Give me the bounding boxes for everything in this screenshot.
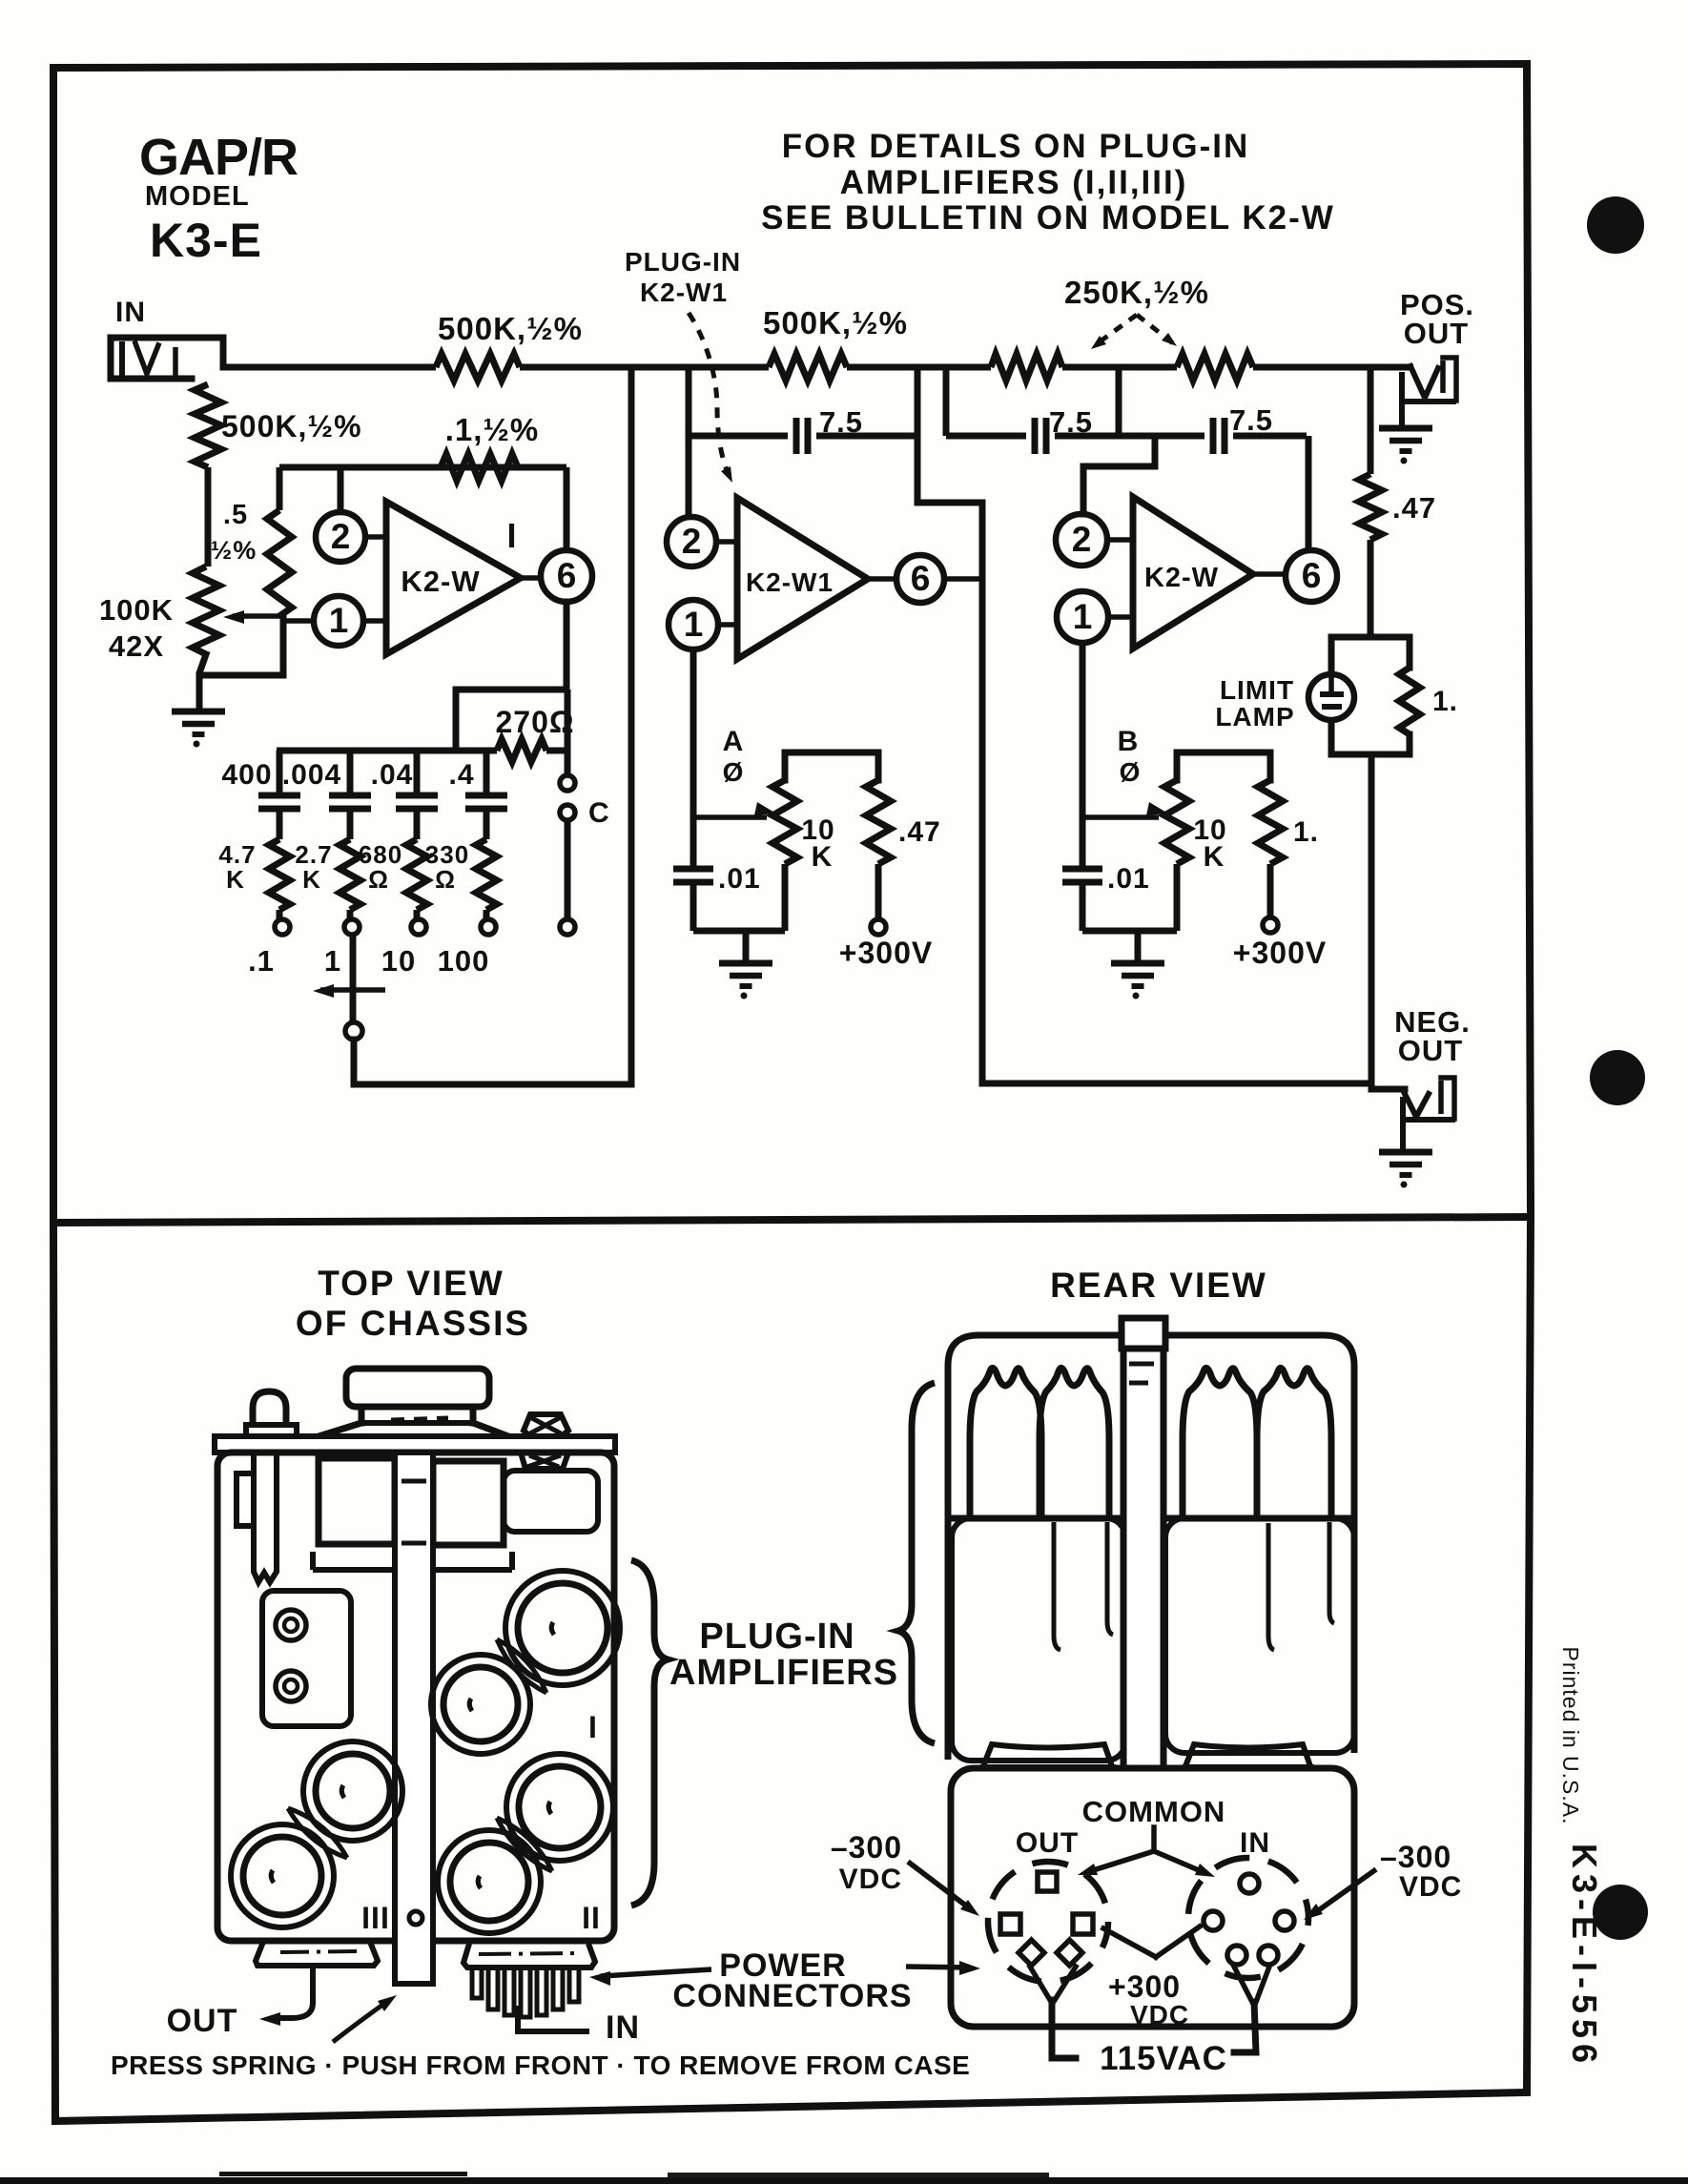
label .004	[282, 759, 341, 791]
switch contact C bottom	[560, 805, 575, 820]
wire pin1 to triangle (stage2)	[718, 622, 737, 628]
svg-text:100K: 100K	[99, 593, 174, 627]
label A phase	[723, 726, 745, 787]
wire feedback riser (stage2)	[915, 367, 921, 503]
svg-text:100: 100	[438, 944, 490, 978]
label 2.7 K	[295, 840, 332, 894]
svg-text:250K,½%: 250K,½%	[1064, 275, 1209, 310]
spring pointer arrow	[333, 1995, 397, 2042]
svg-text:OUT: OUT	[1398, 1034, 1463, 1067]
op-amp K2-W I (triangle)	[386, 502, 521, 654]
rear socket left	[980, 1744, 1116, 1767]
svg-text:K: K	[812, 841, 834, 873]
IN pin left	[1204, 1911, 1223, 1930]
wire 270 to switch	[565, 690, 571, 775]
svg-text:SEE BULLETIN ON MODEL K2-W: SEE BULLETIN ON MODEL K2-W	[761, 199, 1335, 237]
rear center bar cap	[1122, 1318, 1165, 1383]
resistor .47 (A)	[866, 780, 891, 864]
brace right (plug-in amplifiers)	[898, 1383, 935, 1743]
wire main bus segment 3	[847, 364, 991, 371]
svg-text:B: B	[1118, 726, 1140, 757]
svg-text:500K,½%: 500K,½%	[438, 311, 583, 346]
svg-text:.1: .1	[248, 944, 275, 978]
amplifier I tube cluster	[431, 1571, 620, 1754]
terminal C bottom	[560, 919, 575, 935]
capacitor 7.5 (stage2)	[796, 418, 808, 454]
OUT pin square left	[1000, 1914, 1020, 1934]
resistor 270 ohm	[497, 739, 568, 762]
svg-text:OUT: OUT	[167, 2003, 238, 2039]
svg-text:6: 6	[911, 559, 931, 598]
chassis knob neck	[361, 1407, 473, 1423]
label 7.5 (stage3 first)	[1049, 405, 1093, 439]
rear tube legs	[1054, 1522, 1334, 1650]
pin 1 circle (stage2)	[669, 600, 718, 649]
svg-text:500K,½%: 500K,½%	[221, 409, 362, 443]
resistor 250K second	[1177, 354, 1253, 381]
arrow power right	[906, 1961, 980, 1975]
label tap .1	[248, 944, 275, 978]
wire resistor to terminal (B)	[1267, 864, 1274, 917]
capacitor 400	[258, 795, 300, 839]
potentiometer 10K (B)	[1164, 780, 1189, 864]
label 115VAC	[1100, 2040, 1227, 2077]
IN power connector (dashed circle)	[1188, 1858, 1308, 1978]
resistor 4.7K (decade)	[269, 839, 290, 910]
wire resistor to tap 3	[414, 910, 421, 919]
wire main bus segment 5	[1253, 364, 1413, 371]
svg-text:1: 1	[329, 601, 349, 640]
switch contact C top	[560, 775, 575, 791]
ground (stage1 divider)	[172, 711, 225, 748]
wire cap stub 2	[347, 751, 354, 793]
wire pot top elbow (A)	[785, 752, 878, 780]
dashed arrow plug-in	[689, 313, 732, 483]
svg-text:.1,½%: .1,½%	[445, 412, 540, 447]
resistor 680&#937; (decade)	[406, 839, 427, 910]
svg-text:IN: IN	[1240, 1827, 1270, 1859]
svg-text:PLUG-IN: PLUG-IN	[699, 1617, 854, 1657]
rear module right	[1165, 1518, 1354, 1753]
svg-text:2: 2	[1072, 520, 1092, 559]
wire pin1 left (stage1)	[283, 618, 314, 624]
svg-text:AMPLIFIERS (I,II,III): AMPLIFIERS (I,II,III)	[840, 164, 1188, 201]
wire ground stem (B)	[1135, 931, 1142, 961]
connector IN jack	[111, 338, 223, 379]
svg-text:K3-E: K3-E	[150, 214, 262, 267]
svg-text:AMPLIFIERS: AMPLIFIERS	[669, 1653, 898, 1693]
label LIMIT LAMP	[1215, 675, 1294, 731]
label POWER CONNECTORS	[672, 1947, 912, 2014]
title GAP/R	[139, 129, 298, 186]
chassis right transformer	[433, 1461, 504, 1545]
margin text K3-E-I-556	[1565, 1844, 1604, 2069]
title REAR VIEW	[1050, 1266, 1267, 1305]
label tap 1	[324, 944, 341, 978]
rear shelf	[948, 1515, 1354, 1522]
ground (B)	[1111, 963, 1164, 999]
note line 2	[840, 164, 1188, 201]
label 100K 42X	[99, 593, 174, 663]
label 10 K (B)	[1193, 814, 1226, 873]
svg-text:LAMP: LAMP	[1215, 702, 1294, 731]
limit lamp box	[1331, 637, 1410, 754]
chassis left tab	[237, 1473, 251, 1526]
IN connector shoe	[463, 1944, 595, 1968]
wire feedback cap line (stage2)	[689, 433, 917, 440]
svg-text:I: I	[506, 516, 517, 555]
svg-text:2: 2	[331, 517, 351, 556]
svg-text:II: II	[582, 1901, 601, 1935]
capacitor .4	[465, 795, 507, 839]
svg-text:K: K	[302, 865, 321, 894]
svg-text:IN: IN	[606, 2009, 640, 2046]
resistor 500K half-percent (stage1 input, horizontal)	[436, 354, 520, 381]
svg-text:K2-W1: K2-W1	[640, 278, 728, 307]
dashed arrows to 250K resistors	[1091, 315, 1177, 349]
svg-text:K2-W: K2-W	[1144, 563, 1219, 593]
svg-text:.01: .01	[718, 863, 761, 895]
svg-text:1.: 1.	[1293, 816, 1319, 848]
svg-text:K: K	[1204, 841, 1225, 873]
capacitor .01 (B)	[1062, 817, 1102, 931]
OUT pin diamond left	[1019, 1940, 1044, 1966]
title MODEL	[145, 181, 250, 212]
wire cap stub 4	[484, 751, 490, 793]
label B phase	[1118, 726, 1142, 787]
connector ring 2	[276, 1671, 306, 1701]
chassis center bar	[395, 1453, 433, 1984]
svg-text:VDC: VDC	[1130, 2000, 1189, 2029]
svg-text:6: 6	[557, 556, 577, 595]
label +300V (B)	[1233, 936, 1327, 970]
wire pin6 down	[456, 602, 566, 751]
bottom page scan edge	[0, 2172, 1688, 2184]
label .01 (B)	[1107, 863, 1150, 895]
wire cap stub 3	[414, 751, 421, 793]
IN pin bottom right	[1259, 1946, 1278, 1965]
label I (top view)	[588, 1710, 598, 1744]
wire junction riser (stage3)	[1116, 367, 1122, 436]
label 500K,1/2% (stage2)	[763, 305, 908, 340]
arrow -300 right	[1304, 1869, 1376, 1920]
wiper arrow (pot B)	[1082, 802, 1168, 817]
wire feedback elbow (stage2)	[917, 503, 982, 1083]
wire wiper to lower junction	[199, 616, 283, 675]
svg-text:400: 400	[221, 759, 272, 791]
wire bottom (A)	[693, 928, 785, 935]
label tap 100	[438, 944, 490, 978]
svg-text:7.5: 7.5	[1049, 405, 1093, 439]
brace left (plug-in amplifiers)	[631, 1560, 668, 1906]
capacitor .04	[396, 795, 438, 839]
wire apex to pin6 (stage1)	[521, 575, 541, 581]
wire .47 to lamp box	[1368, 540, 1374, 637]
wire pin1 down (stage2)	[690, 649, 697, 817]
svg-text:500K,½%: 500K,½%	[763, 305, 908, 340]
svg-text:115VAC: 115VAC	[1100, 2040, 1227, 2077]
amplifier II tube cluster	[438, 1754, 613, 1933]
label NEG. OUT	[1394, 1005, 1471, 1067]
label .01 (A)	[718, 863, 761, 895]
label 500K,1/2% (stage1)	[438, 311, 583, 346]
resistor 500K half-percent (stage2 input)	[769, 354, 847, 381]
svg-text:MODEL: MODEL	[145, 181, 250, 212]
pot wiper arrow	[223, 610, 283, 624]
outer page border (top box)	[53, 64, 1531, 1223]
tap terminal 10	[411, 919, 426, 935]
potentiometer 10K (A)	[772, 780, 797, 864]
svg-text:K2-W1: K2-W1	[746, 567, 834, 597]
wire cap stub 1	[277, 751, 283, 793]
svg-text:.01: .01	[1107, 863, 1150, 895]
svg-text:+300: +300	[1108, 1969, 1181, 2004]
label 7.5 (stage2)	[819, 405, 863, 439]
note line 3	[761, 199, 1335, 237]
label +300V (A)	[839, 936, 933, 970]
wire main bus segment 1	[221, 364, 436, 371]
svg-text:½%: ½%	[211, 536, 257, 565]
+300 vee wires	[1103, 1926, 1200, 1957]
chassis bulb	[246, 1391, 297, 1436]
label AMPLIFIERS	[669, 1653, 898, 1693]
svg-text:.5: .5	[223, 500, 248, 530]
wire neg out bottom bus	[982, 1081, 1371, 1087]
rear tube 2	[1040, 1368, 1109, 1518]
IN connector pins	[472, 1968, 579, 2017]
rear center bar	[1123, 1349, 1163, 1768]
wire pin6 up (stage3)	[1306, 436, 1312, 550]
svg-text:K: K	[226, 865, 245, 894]
op-amp K2-W1 (triangle)	[737, 498, 868, 659]
label II (top view)	[582, 1901, 601, 1935]
punch hole bottom right	[1593, 1885, 1648, 1940]
rear tube 3	[1183, 1368, 1257, 1518]
pin 6 circle (stage1)	[541, 550, 592, 602]
label PLUG-IN K2-W1	[625, 247, 741, 307]
OUT pin diamond right	[1057, 1940, 1082, 1966]
note line 1	[782, 128, 1250, 165]
label 10 K (A)	[801, 814, 834, 873]
capacitor 7.5 (stage3 first)	[1035, 418, 1046, 454]
svg-text:C: C	[588, 797, 610, 829]
wire apex to pin6 (stage3)	[1253, 571, 1286, 577]
OUT connector shoe	[256, 1942, 378, 1966]
label III (top view)	[361, 1901, 390, 1935]
OUT power connector (dashed circle)	[988, 1862, 1108, 1982]
resistor .5 1/2% (vertical)	[267, 467, 292, 616]
svg-text:CONNECTORS: CONNECTORS	[672, 1978, 912, 2014]
rear tube 4	[1257, 1368, 1331, 1518]
svg-text:I: I	[588, 1710, 598, 1744]
punch hole top right	[1587, 196, 1644, 254]
label OUT (top view)	[167, 2003, 238, 2039]
capacitor 7.5 (stage3 second)	[1213, 418, 1225, 454]
label -300 VDC (left)	[831, 1830, 902, 1895]
selector arrow (decade switch)	[313, 984, 385, 998]
wire feedback top line	[279, 464, 566, 471]
amplifier III tube cluster	[231, 1741, 402, 1927]
svg-text:.04: .04	[371, 759, 414, 791]
svg-text:K2-W: K2-W	[401, 565, 480, 598]
wire input chain	[205, 467, 212, 567]
svg-text:OF CHASSIS: OF CHASSIS	[296, 1304, 530, 1343]
terminal +300V (A)	[871, 919, 886, 935]
title K3-E	[150, 214, 262, 267]
connector block (left)	[262, 1591, 351, 1726]
wire .47 drop	[1368, 367, 1374, 474]
resistor 2.7K (decade)	[340, 839, 360, 910]
wire selector to bottom	[354, 1040, 631, 1084]
resistor .47 (output)	[1359, 474, 1382, 540]
svg-text:REAR VIEW: REAR VIEW	[1050, 1266, 1267, 1305]
svg-text:OUT: OUT	[1016, 1827, 1079, 1859]
svg-text:A: A	[723, 726, 745, 757]
label .47 (A)	[898, 816, 941, 848]
divider line between schematic and views	[53, 1217, 1531, 1223]
common arrows	[1078, 1827, 1215, 1877]
115VAC funnel right	[1234, 1967, 1269, 2052]
svg-text:270Ω: 270Ω	[495, 705, 574, 739]
resistor .1 1/2% (feedback)	[441, 454, 518, 481]
svg-text:Ω: Ω	[435, 865, 456, 894]
rear socket right	[1183, 1744, 1314, 1767]
svg-text:K3-E-I-556: K3-E-I-556	[1565, 1844, 1604, 2069]
chassis hex nut upper	[524, 1414, 568, 1436]
svg-text:+300V: +300V	[1233, 936, 1327, 970]
terminal +300V (B)	[1263, 917, 1278, 933]
IN pin right	[1275, 1911, 1294, 1930]
resistor 250K first	[991, 354, 1062, 381]
label 250K,1/2%	[1064, 275, 1209, 310]
svg-text:6: 6	[1302, 556, 1322, 595]
capacitor .004	[329, 795, 371, 839]
svg-text:III: III	[361, 1901, 390, 1935]
label PLUG-IN	[699, 1617, 854, 1657]
resistor 1. (B)	[1258, 780, 1283, 864]
ground (POS OUT)	[1379, 428, 1432, 464]
label 400	[221, 759, 272, 791]
svg-text:VDC: VDC	[1399, 1871, 1462, 1903]
IN pin bottom left	[1227, 1946, 1246, 1965]
wire long vertical stage2 left	[628, 367, 635, 1084]
label -300 VDC (right)	[1380, 1840, 1462, 1903]
115VAC funnel left	[1030, 1967, 1076, 2058]
label COMMON	[1082, 1795, 1226, 1828]
wire pin1 to triangle (stage3)	[1108, 614, 1133, 620]
wire pin2 drop (stage2)	[686, 367, 692, 517]
connector ring 1	[276, 1610, 306, 1640]
wire pin2 to triangle (stage1)	[365, 534, 386, 540]
label OUT (rear)	[1016, 1827, 1079, 1859]
svg-text:+300V: +300V	[839, 936, 933, 970]
label +300 VDC	[1108, 1969, 1189, 2029]
label 4.7 K	[218, 840, 256, 894]
label IN (rear)	[1240, 1827, 1270, 1859]
svg-text:2: 2	[682, 522, 702, 561]
label .47 (output)	[1392, 491, 1436, 525]
label .1,1/2%	[445, 412, 540, 447]
title TOP VIEW	[318, 1264, 504, 1303]
wire resistor to tap 4	[484, 910, 490, 919]
arrow -300 left	[908, 1862, 979, 1916]
chassis left rod	[254, 1453, 277, 1582]
wire pot top elbow (B)	[1177, 752, 1270, 780]
svg-text:Printed in U.S.A.: Printed in U.S.A.	[1558, 1646, 1583, 1824]
label I (amplifier number)	[506, 516, 517, 555]
label 7.5 (stage3 second)	[1229, 403, 1273, 437]
svg-text:PRESS SPRING · PUSH FROM FRONT: PRESS SPRING · PUSH FROM FRONT · TO REMO…	[111, 2050, 970, 2080]
title OF CHASSIS	[296, 1304, 530, 1343]
svg-text:.4: .4	[448, 759, 474, 791]
chassis left transformer	[319, 1458, 395, 1544]
rear module left	[952, 1518, 1125, 1761]
wire pin2 step (stage3)	[1083, 436, 1155, 514]
tap terminal 1	[344, 919, 360, 935]
wire main bus segment 2	[520, 364, 769, 371]
wire feedback cap line (stage3)	[946, 433, 1307, 440]
resistor 1. (limit)	[1399, 668, 1420, 734]
wire resistor to tap 2	[347, 910, 354, 919]
wire pin1 to triangle (stage1)	[363, 618, 386, 624]
pin 2 circle (stage3)	[1056, 514, 1107, 566]
svg-text:Ø: Ø	[1120, 757, 1142, 787]
wire switch to terminal	[565, 820, 571, 919]
svg-text:COMMON: COMMON	[1082, 1795, 1226, 1828]
pin 2 circle (stage1)	[316, 512, 365, 562]
label 1. (limit)	[1432, 686, 1458, 717]
resistor 330&#937; (decade)	[476, 839, 497, 910]
svg-text:1: 1	[1073, 597, 1093, 636]
wire pin2 to triangle (stage2)	[716, 539, 737, 545]
wire pot bottom (A)	[782, 864, 789, 931]
punch hole middle right	[1590, 1050, 1645, 1105]
svg-text:–300: –300	[1380, 1840, 1451, 1874]
IN pin top	[1240, 1874, 1259, 1893]
wire main bus segment 4	[1062, 364, 1177, 371]
tap terminal 100	[481, 919, 496, 935]
wire pot to ground	[199, 654, 206, 709]
chassis top plate	[215, 1436, 615, 1453]
svg-text:Ø: Ø	[723, 757, 745, 787]
svg-text:TOP VIEW: TOP VIEW	[318, 1264, 504, 1303]
chassis knob cap	[346, 1369, 489, 1407]
chassis knob skirt	[319, 1418, 508, 1436]
selector terminal	[345, 1022, 362, 1040]
resistor 500K half-percent vertical (input divider)	[195, 384, 221, 467]
svg-text:1.: 1.	[1432, 686, 1458, 717]
svg-text:42X: 42X	[109, 629, 164, 663]
chassis right module	[504, 1471, 598, 1532]
wire pin2 to triangle (stage3)	[1107, 537, 1133, 543]
svg-text:.004: .004	[282, 759, 341, 791]
pin 1 circle (stage1)	[314, 596, 363, 646]
wire tap 1 down	[350, 935, 357, 1022]
pin 6 circle (stage2)	[896, 555, 944, 603]
chassis hex nut lower	[521, 1453, 568, 1469]
wire lamp box to neg out	[1371, 754, 1405, 1089]
wire ground stem (A)	[743, 931, 750, 961]
label .04	[371, 759, 414, 791]
label POS. OUT	[1400, 288, 1474, 350]
svg-text:VDC: VDC	[839, 1864, 902, 1895]
connector POS OUT jack	[1402, 358, 1456, 428]
wire bottom (B)	[1082, 928, 1177, 935]
svg-text:1: 1	[684, 605, 704, 644]
arrow power left	[589, 1969, 711, 1986]
OUT pin square top	[1038, 1872, 1057, 1891]
label tap 10	[381, 944, 416, 978]
